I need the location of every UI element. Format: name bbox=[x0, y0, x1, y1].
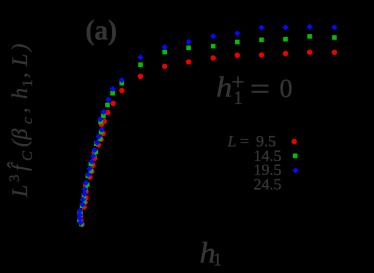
svg-text:24.5: 24.5 bbox=[254, 176, 282, 193]
series L=9.5 red circles bbox=[77, 50, 337, 228]
svg-text:L: L bbox=[227, 134, 237, 151]
svg-text:h: h bbox=[216, 72, 232, 103]
svg-text:(a): (a) bbox=[86, 15, 117, 47]
panel label (a) bbox=[86, 15, 117, 47]
annotation h1+ = 0 bbox=[216, 70, 293, 110]
svg-text:L: L bbox=[7, 185, 32, 198]
svg-text:1: 1 bbox=[20, 80, 36, 88]
legend marker red circle bbox=[292, 139, 297, 144]
y-axis label L^3 fC(beta_c, h1, L) bbox=[7, 44, 36, 198]
svg-text:0: 0 bbox=[280, 74, 293, 103]
series L=19.5 blue diamonds bbox=[76, 24, 337, 226]
svg-text:): ) bbox=[7, 44, 32, 53]
svg-text:,: , bbox=[7, 108, 32, 114]
svg-text:(β: (β bbox=[7, 129, 32, 147]
legend text 19.5 bbox=[254, 162, 282, 179]
svg-text:3: 3 bbox=[7, 175, 23, 183]
svg-text:=: = bbox=[240, 134, 249, 151]
svg-text:1: 1 bbox=[213, 250, 222, 270]
series L=14.5 green squares bbox=[77, 34, 337, 226]
svg-text:,: , bbox=[7, 73, 32, 79]
svg-text:L: L bbox=[7, 54, 32, 67]
legend text L = 9.5 bbox=[227, 134, 277, 151]
svg-text:1: 1 bbox=[234, 89, 243, 109]
x-axis label h1 bbox=[200, 236, 223, 270]
legend marker blue diamond bbox=[292, 168, 298, 174]
legend text 24.5 bbox=[254, 176, 282, 193]
svg-text:c: c bbox=[20, 117, 36, 124]
legend marker green square bbox=[293, 154, 298, 159]
legend text 14.5 bbox=[254, 148, 282, 165]
svg-text:C: C bbox=[20, 150, 36, 161]
svg-text:h: h bbox=[7, 88, 32, 99]
